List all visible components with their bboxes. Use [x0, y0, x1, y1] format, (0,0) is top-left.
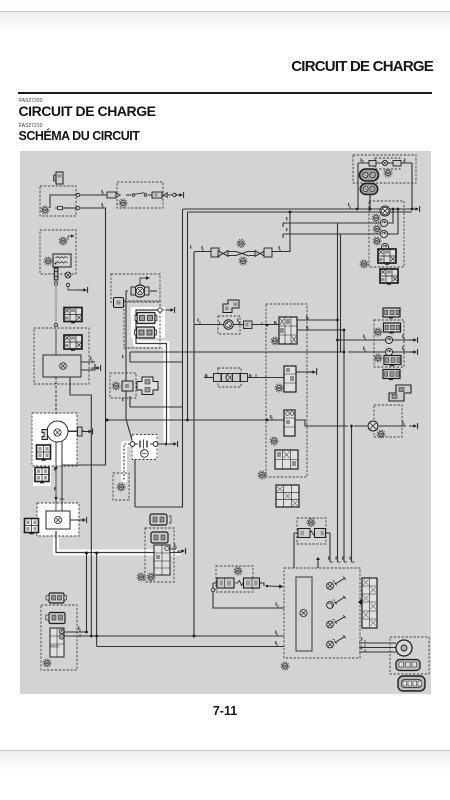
stepped connector right — [389, 385, 411, 401]
wire top-left to long vertical — [64, 207, 76, 209]
handlebar switch crossover contacts — [236, 251, 249, 256]
wire mdc row1 — [64, 631, 87, 633]
box battery — [40, 230, 76, 274]
fuse and relay unit — [296, 557, 346, 651]
wire headlight left drop — [357, 163, 359, 209]
plug above — [150, 514, 167, 525]
box fuse right — [297, 518, 326, 544]
wire capacitor left drop — [134, 460, 136, 508]
box rectifier regulator — [34, 328, 89, 384]
box indicator cluster right — [374, 320, 404, 367]
starting circuit cut-off relay — [114, 276, 151, 307]
schematic canvas — [20, 151, 431, 694]
box magneto — [32, 413, 77, 466]
wire diode row diagonal into capacitor — [126, 419, 132, 440]
box MDC — [41, 605, 77, 670]
svg-text:MDC: MDC — [51, 644, 60, 649]
wire drop x97 — [96, 553, 98, 647]
wire battery feed down right side — [62, 208, 106, 465]
wire connector row y252 (double with crossover switch) — [194, 212, 290, 252]
wire y362 — [130, 361, 183, 363]
tiny wire code labels — [54, 159, 405, 650]
wire row y252 lower conductor — [227, 255, 256, 257]
wire y407 — [130, 406, 183, 408]
wire capacitor to frame earth (dashed over road) — [124, 444, 130, 480]
highlighted (white) circuit roads — [32, 307, 181, 553]
wire bus B y212 — [188, 211, 413, 213]
diode unit D1 — [368, 421, 385, 438]
headlight assembly — [360, 160, 402, 194]
wire engine earth stub — [70, 519, 80, 521]
circled label under fuse row — [119, 199, 127, 207]
grid block — [154, 545, 170, 575]
box capacitor — [132, 435, 157, 460]
wire relaybox top stub — [317, 558, 319, 568]
wire fuse3 left drop — [294, 533, 299, 568]
road: main switch down to capacitor node — [136, 310, 167, 444]
box main fuse row — [117, 182, 163, 208]
wire fuse2 center — [213, 583, 264, 586]
wire headlight right drop — [411, 163, 413, 209]
box engine earth — [37, 503, 79, 536]
bottom rounded connector — [398, 676, 425, 691]
box diode unit right — [374, 405, 402, 437]
signalling fuse row y377 — [204, 368, 284, 387]
harness 3x3 connector block — [276, 485, 299, 507]
wire y372 out of harness — [296, 371, 312, 373]
stepped connector top-center — [223, 300, 239, 313]
wire capacitor row — [135, 443, 167, 445]
box frame earth — [113, 473, 129, 500]
wire y330 — [296, 329, 344, 331]
relay unit connector grid — [358, 578, 377, 628]
fuse F4 right — [298, 519, 326, 538]
wire main switch block out — [171, 548, 176, 550]
plug above MDC box — [49, 593, 64, 603]
box diode/cross block — [110, 373, 136, 398]
box meter assembly — [369, 201, 404, 267]
wire relay out — [150, 290, 157, 292]
resistor unit row y324 — [218, 316, 240, 334]
wire y320 — [296, 319, 338, 321]
white patch magneto lower connector — [33, 463, 51, 486]
wire rectifier bottom dashed drop — [55, 377, 57, 414]
A.C. magneto — [35, 421, 93, 511]
MDC block — [50, 628, 64, 657]
wire fuse2 into relay box — [278, 607, 284, 609]
wire bus A y209 — [183, 208, 412, 210]
wire meter row 1 — [283, 209, 393, 223]
wire y340 — [338, 339, 413, 341]
wire x130 diode down — [129, 396, 131, 407]
bus y209 end arrow — [411, 206, 420, 212]
white patch main switch — [131, 307, 165, 338]
wire harness junction connectors — [244, 317, 299, 479]
capacitor (condenser) — [130, 440, 178, 458]
wire drop x86 — [86, 553, 88, 632]
main switch contact symbol — [132, 193, 147, 197]
vertical long V2 — [187, 212, 189, 420]
indicator light cluster — [374, 308, 401, 380]
box fuse center — [216, 566, 253, 592]
white patch engine earth — [37, 503, 79, 536]
vertical long V1 — [135, 209, 183, 507]
wire relay left drop — [126, 291, 128, 419]
section codes and titles — [19, 98, 42, 104]
frame earth screw — [117, 483, 125, 491]
vertical long V3 — [193, 252, 195, 636]
tick marks on wires — [80, 160, 404, 652]
battery terminal screw — [41, 206, 49, 214]
wire segments within fuse row — [126, 194, 175, 196]
main switch lower unit — [137, 514, 186, 581]
wire headlight row — [358, 162, 412, 164]
wire fuse3 right drop — [325, 532, 330, 534]
plug inside — [151, 532, 168, 543]
fuse F3 center — [211, 567, 283, 592]
handlebar switch connector row y252 — [211, 240, 272, 266]
meter assembly cluster — [360, 206, 398, 285]
main fuse row plug right — [152, 192, 176, 198]
main fuse row plug left — [107, 192, 121, 198]
box main switch lower — [145, 528, 174, 582]
wire top-left switch row — [50, 195, 76, 208]
diode block (cross connector) — [112, 377, 158, 395]
rectifier regulator U1 — [43, 308, 101, 378]
wire rectifier right bottom — [70, 377, 91, 636]
bus y648 — [97, 646, 284, 648]
plug inside MDC box — [49, 613, 65, 624]
box horn — [390, 637, 429, 674]
page number — [0, 704, 450, 718]
wire to main switch fuse row — [80, 194, 117, 196]
battery and starter relay group — [44, 235, 88, 512]
wire oval2 drop — [369, 193, 371, 209]
bus y637 — [64, 635, 284, 637]
horn — [396, 640, 420, 671]
wire row y324 — [194, 324, 279, 326]
wire meter hooks — [282, 223, 284, 238]
wire harness row1 to block — [240, 324, 279, 326]
box main switch — [124, 301, 160, 348]
dashed component enclosure boxes — [32, 155, 429, 674]
page gap separator top — [0, 11, 450, 12]
main switch connectors — [135, 307, 175, 338]
box battery/starter relay top-left — [40, 186, 76, 216]
white patch magneto — [32, 413, 77, 466]
node terminals on battery box — [76, 193, 79, 196]
road: engine earth down and right to main switch block — [56, 531, 181, 553]
white patch capacitor — [131, 434, 158, 460]
wire long y352 — [130, 352, 412, 362]
box relay unit mid-left — [111, 274, 160, 302]
page gap separator bottom — [0, 750, 450, 751]
box headlight inner — [375, 158, 400, 169]
road: capacitor to frame earth — [124, 444, 132, 482]
wire horn triple — [359, 643, 396, 652]
wire bus y420 — [106, 420, 407, 426]
running header: CIRCUIT DE CHARGE right aligned — [0, 58, 433, 75]
box wire harness column — [266, 304, 307, 477]
box headlight assembly — [353, 155, 416, 183]
fuse holder F2 top-left — [54, 172, 64, 184]
wire rectifier stubs — [81, 362, 95, 370]
main fuse element — [55, 206, 65, 209]
wire magneto stub — [67, 430, 84, 432]
horizontal rule — [18, 92, 432, 94]
wire meter row 2 — [283, 209, 398, 234]
verticals to fusebox — [337, 223, 339, 562]
engine earth unit — [25, 511, 87, 534]
box fuse/relay unit — [284, 568, 360, 658]
